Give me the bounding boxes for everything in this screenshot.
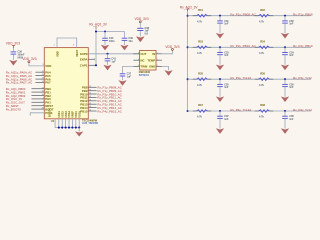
svg-text:R37: R37 <box>198 103 203 107</box>
wire <box>156 59 162 61</box>
power port VDD_3V3 (mid) <box>135 17 149 23</box>
svg-text:R31: R31 <box>198 8 203 12</box>
wire (GND pin) <box>162 67 169 71</box>
svg-text:OUT: OUT <box>141 52 147 56</box>
svg-text:PA7: PA7 <box>45 81 51 85</box>
svg-text:4: 4 <box>138 58 139 61</box>
wire <box>35 71 44 73</box>
wire (vertical bus) <box>187 11 189 111</box>
svg-text:2: 2 <box>43 98 44 100</box>
svg-text:34: 34 <box>89 102 91 105</box>
wire <box>61 119 63 128</box>
svg-text:44: 44 <box>42 107 44 110</box>
wire <box>133 53 139 55</box>
capacitor C37 <box>120 73 132 81</box>
svg-text:VSSA: VSSA <box>67 111 71 118</box>
svg-text:R36: R36 <box>260 71 265 75</box>
wire <box>31 105 44 107</box>
resistor R35 <box>193 71 211 87</box>
ground <box>281 97 288 102</box>
svg-text:31: 31 <box>89 93 91 95</box>
svg-text:1nF: 1nF <box>289 118 294 121</box>
ground <box>281 129 288 134</box>
ground <box>101 45 108 50</box>
wire <box>88 96 96 98</box>
svg-text:EXPA: EXPA <box>80 58 89 62</box>
svg-text:4.7k: 4.7k <box>197 84 202 87</box>
node D <box>106 53 108 55</box>
svg-text:1nF: 1nF <box>289 86 294 89</box>
node GND junction <box>78 127 80 129</box>
svg-text:11: 11 <box>42 74 44 76</box>
ground <box>165 71 172 76</box>
svg-text:35: 35 <box>89 106 91 108</box>
capacitor C41 <box>105 54 117 65</box>
capacitor C38 <box>282 111 294 129</box>
svg-text:4.7k: 4.7k <box>259 84 264 87</box>
svg-text:16: 16 <box>42 94 44 96</box>
capacitor C33 <box>217 47 229 65</box>
svg-text:4.7k: 4.7k <box>259 20 264 23</box>
wire <box>88 64 96 66</box>
wire <box>95 32 97 66</box>
svg-text:GND: GND <box>149 65 155 69</box>
node row 3 tap b <box>284 78 286 80</box>
capacitor C32 <box>282 16 294 34</box>
svg-text:1nF: 1nF <box>224 118 229 121</box>
node row 3 tap a <box>219 78 221 80</box>
svg-text:EXP9: EXP9 <box>80 52 88 56</box>
node GND junction <box>61 127 63 129</box>
svg-text:SOT23-6: SOT23-6 <box>139 74 150 77</box>
svg-text:1nF: 1nF <box>289 54 294 57</box>
ground <box>104 65 111 70</box>
svg-text:R33: R33 <box>198 39 203 43</box>
node GND junction <box>68 127 70 129</box>
op-amp U2 (REF3330 regulator) <box>140 51 156 71</box>
wire <box>29 63 44 66</box>
wire <box>35 78 44 80</box>
svg-text:8: 8 <box>73 45 74 47</box>
svg-text:Rx_P4y_PB15_AC: Rx_P4y_PB15_AC <box>97 109 121 113</box>
wire <box>188 110 311 112</box>
svg-text:VDD_3V3: VDD_3V3 <box>165 45 179 49</box>
svg-text:36: 36 <box>89 110 91 112</box>
wire <box>133 59 139 61</box>
capacitor C35 <box>217 79 229 97</box>
ground <box>76 132 83 137</box>
ground <box>216 65 223 70</box>
ground <box>10 60 17 65</box>
svg-text:5: 5 <box>157 65 158 67</box>
wire <box>35 81 44 83</box>
wire <box>71 119 73 128</box>
svg-text:10: 10 <box>42 71 44 73</box>
wire (bottom-left L) <box>55 119 79 128</box>
resistor R32 <box>255 8 273 24</box>
svg-text:6: 6 <box>138 65 139 67</box>
node C <box>95 64 97 66</box>
power port VDD_3V3 (to U1 VDD pin) <box>22 57 36 63</box>
power port VDD_3V3 (reg IN) <box>165 45 179 50</box>
svg-text:R34: R34 <box>260 39 265 43</box>
svg-text:VBAT: VBAT <box>75 50 79 57</box>
resistor R33 <box>193 39 211 55</box>
node bus junction row 3 <box>187 78 189 80</box>
svg-text:Rx_BOOT0: Rx_BOOT0 <box>6 107 21 111</box>
svg-text:4.7k: 4.7k <box>197 20 202 23</box>
wire <box>88 103 96 105</box>
node bus junction row 4 <box>187 110 189 112</box>
svg-text:Rx_P1y_PB08: Rx_P1y_PB08 <box>293 13 313 17</box>
op-amp U1 (MCU block) <box>44 48 88 119</box>
node bus junction row 2 <box>187 46 189 48</box>
svg-text:AUX_TSCPAD: AUX_TSCPAD <box>82 122 98 125</box>
svg-text:VSS3: VSS3 <box>64 111 68 118</box>
svg-text:Rx_P2y_PB10: Rx_P2y_PB10 <box>293 44 313 48</box>
wire <box>31 108 44 110</box>
wire <box>95 29 97 32</box>
svg-text:Rx_P4y_Tx14A: Rx_P4y_Tx14A <box>230 108 251 112</box>
svg-text:4: 4 <box>43 103 44 106</box>
wire <box>31 88 44 90</box>
svg-text:14: 14 <box>42 86 44 89</box>
node Rx_AQ2_3V (bus top) <box>180 5 199 11</box>
svg-text:IN: IN <box>152 52 155 56</box>
svg-text:13: 13 <box>42 81 44 83</box>
wire <box>12 48 14 51</box>
capacitor C39 <box>122 32 134 45</box>
ground <box>216 33 223 38</box>
svg-text:Rx_P3y_Tx12: Rx_P3y_Tx12 <box>293 76 312 80</box>
capacitor C38 <box>137 27 149 36</box>
svg-text:4.7k: 4.7k <box>259 116 264 119</box>
ground <box>136 37 144 42</box>
svg-text:Rx_AQ2_3V: Rx_AQ2_3V <box>89 22 108 26</box>
svg-text:10n: 10n <box>128 40 133 43</box>
wire <box>156 66 162 68</box>
wire <box>65 119 67 128</box>
svg-text:BOOT0: BOOT0 <box>48 108 52 117</box>
wire <box>68 119 70 128</box>
capacitor C37 <box>217 111 229 129</box>
wire <box>88 90 96 92</box>
ground <box>121 45 128 50</box>
wire (top VDD loop) <box>57 38 77 48</box>
node row 4 tap a <box>219 110 221 112</box>
svg-text:2: 2 <box>138 52 139 54</box>
wire (TRIM to C37) <box>123 67 134 74</box>
svg-text:5: 5 <box>43 64 44 66</box>
svg-text:VDD: VDD <box>55 51 59 57</box>
svg-text:1: 1 <box>157 52 158 54</box>
node Rx_AQ2_3V <box>89 22 108 28</box>
capacitor C36 <box>282 79 294 97</box>
svg-text:TEMP: TEMP <box>147 58 155 62</box>
wire <box>35 75 44 77</box>
resistor R31 <box>193 8 211 24</box>
ground <box>281 33 288 38</box>
resistor R34 <box>255 39 273 55</box>
wire <box>31 98 44 100</box>
node GND junction <box>75 127 77 129</box>
svg-text:1nF: 1nF <box>224 86 229 89</box>
svg-text:VDD_3V3: VDD_3V3 <box>135 17 149 21</box>
wire <box>78 119 80 128</box>
svg-text:VDD_3V3: VDD_3V3 <box>22 57 36 61</box>
wire <box>88 100 96 102</box>
wire <box>88 86 96 88</box>
svg-text:3: 3 <box>43 101 44 103</box>
node row 4 tap b <box>284 110 286 112</box>
wire <box>88 107 96 109</box>
wire <box>188 78 311 80</box>
capacitor C31 <box>217 16 229 34</box>
ground <box>216 97 223 102</box>
svg-text:100n: 100n <box>109 40 115 43</box>
svg-text:PB15: PB15 <box>80 109 88 113</box>
node GND junction <box>58 127 60 129</box>
capacitor C34 <box>282 47 294 65</box>
svg-text:VSS1: VSS1 <box>57 111 61 118</box>
wire <box>188 15 311 17</box>
wire <box>88 110 96 112</box>
power port VDD_3V3 (top-left) <box>6 42 20 49</box>
resistor R37 <box>193 103 211 119</box>
node A <box>95 30 97 32</box>
svg-text:30: 30 <box>89 89 91 91</box>
svg-text:Rx_AQ2_3V: Rx_AQ2_3V <box>180 5 199 9</box>
wire <box>31 101 44 103</box>
svg-text:U1: U1 <box>51 119 55 123</box>
wire <box>78 128 80 132</box>
svg-text:29: 29 <box>89 86 91 88</box>
svg-text:4.7k: 4.7k <box>197 116 202 119</box>
wire <box>88 93 96 95</box>
svg-text:1uF: 1uF <box>127 76 132 79</box>
svg-text:VSS2: VSS2 <box>60 111 64 118</box>
resistor R36 <box>255 71 273 87</box>
svg-text:15: 15 <box>42 91 44 93</box>
node row 2 tap b <box>284 46 286 48</box>
svg-text:VDD: VDD <box>45 64 51 68</box>
svg-text:1nF: 1nF <box>224 54 229 57</box>
svg-text:1: 1 <box>54 45 55 47</box>
svg-text:1nF: 1nF <box>289 23 294 26</box>
node GND junction <box>65 127 67 129</box>
svg-text:1uF: 1uF <box>111 60 116 63</box>
svg-text:12: 12 <box>42 78 44 80</box>
svg-text:33: 33 <box>89 99 91 101</box>
svg-text:Rx_P4y_Tx14: Rx_P4y_Tx14 <box>293 108 312 112</box>
wire <box>188 46 311 48</box>
wire (VDDA rail) <box>88 53 139 55</box>
svg-text:TRIM: TRIM <box>141 65 149 69</box>
wire <box>31 95 44 97</box>
svg-text:Rx_P2y_PB10_AC: Rx_P2y_PB10_AC <box>230 44 256 48</box>
wire <box>88 58 94 60</box>
ground <box>119 81 126 86</box>
wire (IN pin) <box>162 50 173 54</box>
svg-text:VREF: VREF <box>71 110 75 117</box>
svg-text:Rx_P3y_Tx12A: Rx_P3y_Tx12A <box>230 76 251 80</box>
wire <box>58 119 60 128</box>
svg-text:R35: R35 <box>198 71 203 75</box>
wire <box>156 53 162 55</box>
node GND junction <box>71 127 73 129</box>
wire (stub row) <box>30 113 44 116</box>
wire <box>96 31 125 33</box>
svg-text:4.7k: 4.7k <box>197 52 202 55</box>
ground <box>281 65 288 70</box>
capacitor C40 <box>102 32 115 45</box>
node row 1 tap b <box>284 15 286 17</box>
capacitor C36 <box>11 50 25 60</box>
node row 1 tap a <box>219 15 221 17</box>
svg-text:R32: R32 <box>260 8 265 12</box>
svg-text:4.7k: 4.7k <box>259 52 264 55</box>
wire <box>75 119 77 128</box>
svg-text:VSS4: VSS4 <box>74 111 78 118</box>
wire <box>133 66 139 68</box>
wire <box>139 23 141 28</box>
node row 2 tap a <box>219 46 221 48</box>
resistor R38 <box>255 103 273 119</box>
svg-text:32: 32 <box>89 96 91 98</box>
svg-text:3: 3 <box>157 59 158 61</box>
svg-text:CAP1: CAP1 <box>80 63 88 67</box>
svg-text:Rx_P1y_PB08_AC: Rx_P1y_PB08_AC <box>230 13 256 17</box>
node B <box>104 30 106 32</box>
node bus junction row 1 <box>187 15 189 17</box>
svg-text:Rx_AQ1y_PA07_AC: Rx_AQ1y_PA07_AC <box>6 81 32 85</box>
svg-text:1nF: 1nF <box>224 23 229 26</box>
svg-text:R38: R38 <box>260 103 265 107</box>
svg-text:VSS5: VSS5 <box>77 111 81 118</box>
svg-text:NC: NC <box>141 58 145 62</box>
ground <box>216 129 223 134</box>
wire <box>31 91 44 93</box>
